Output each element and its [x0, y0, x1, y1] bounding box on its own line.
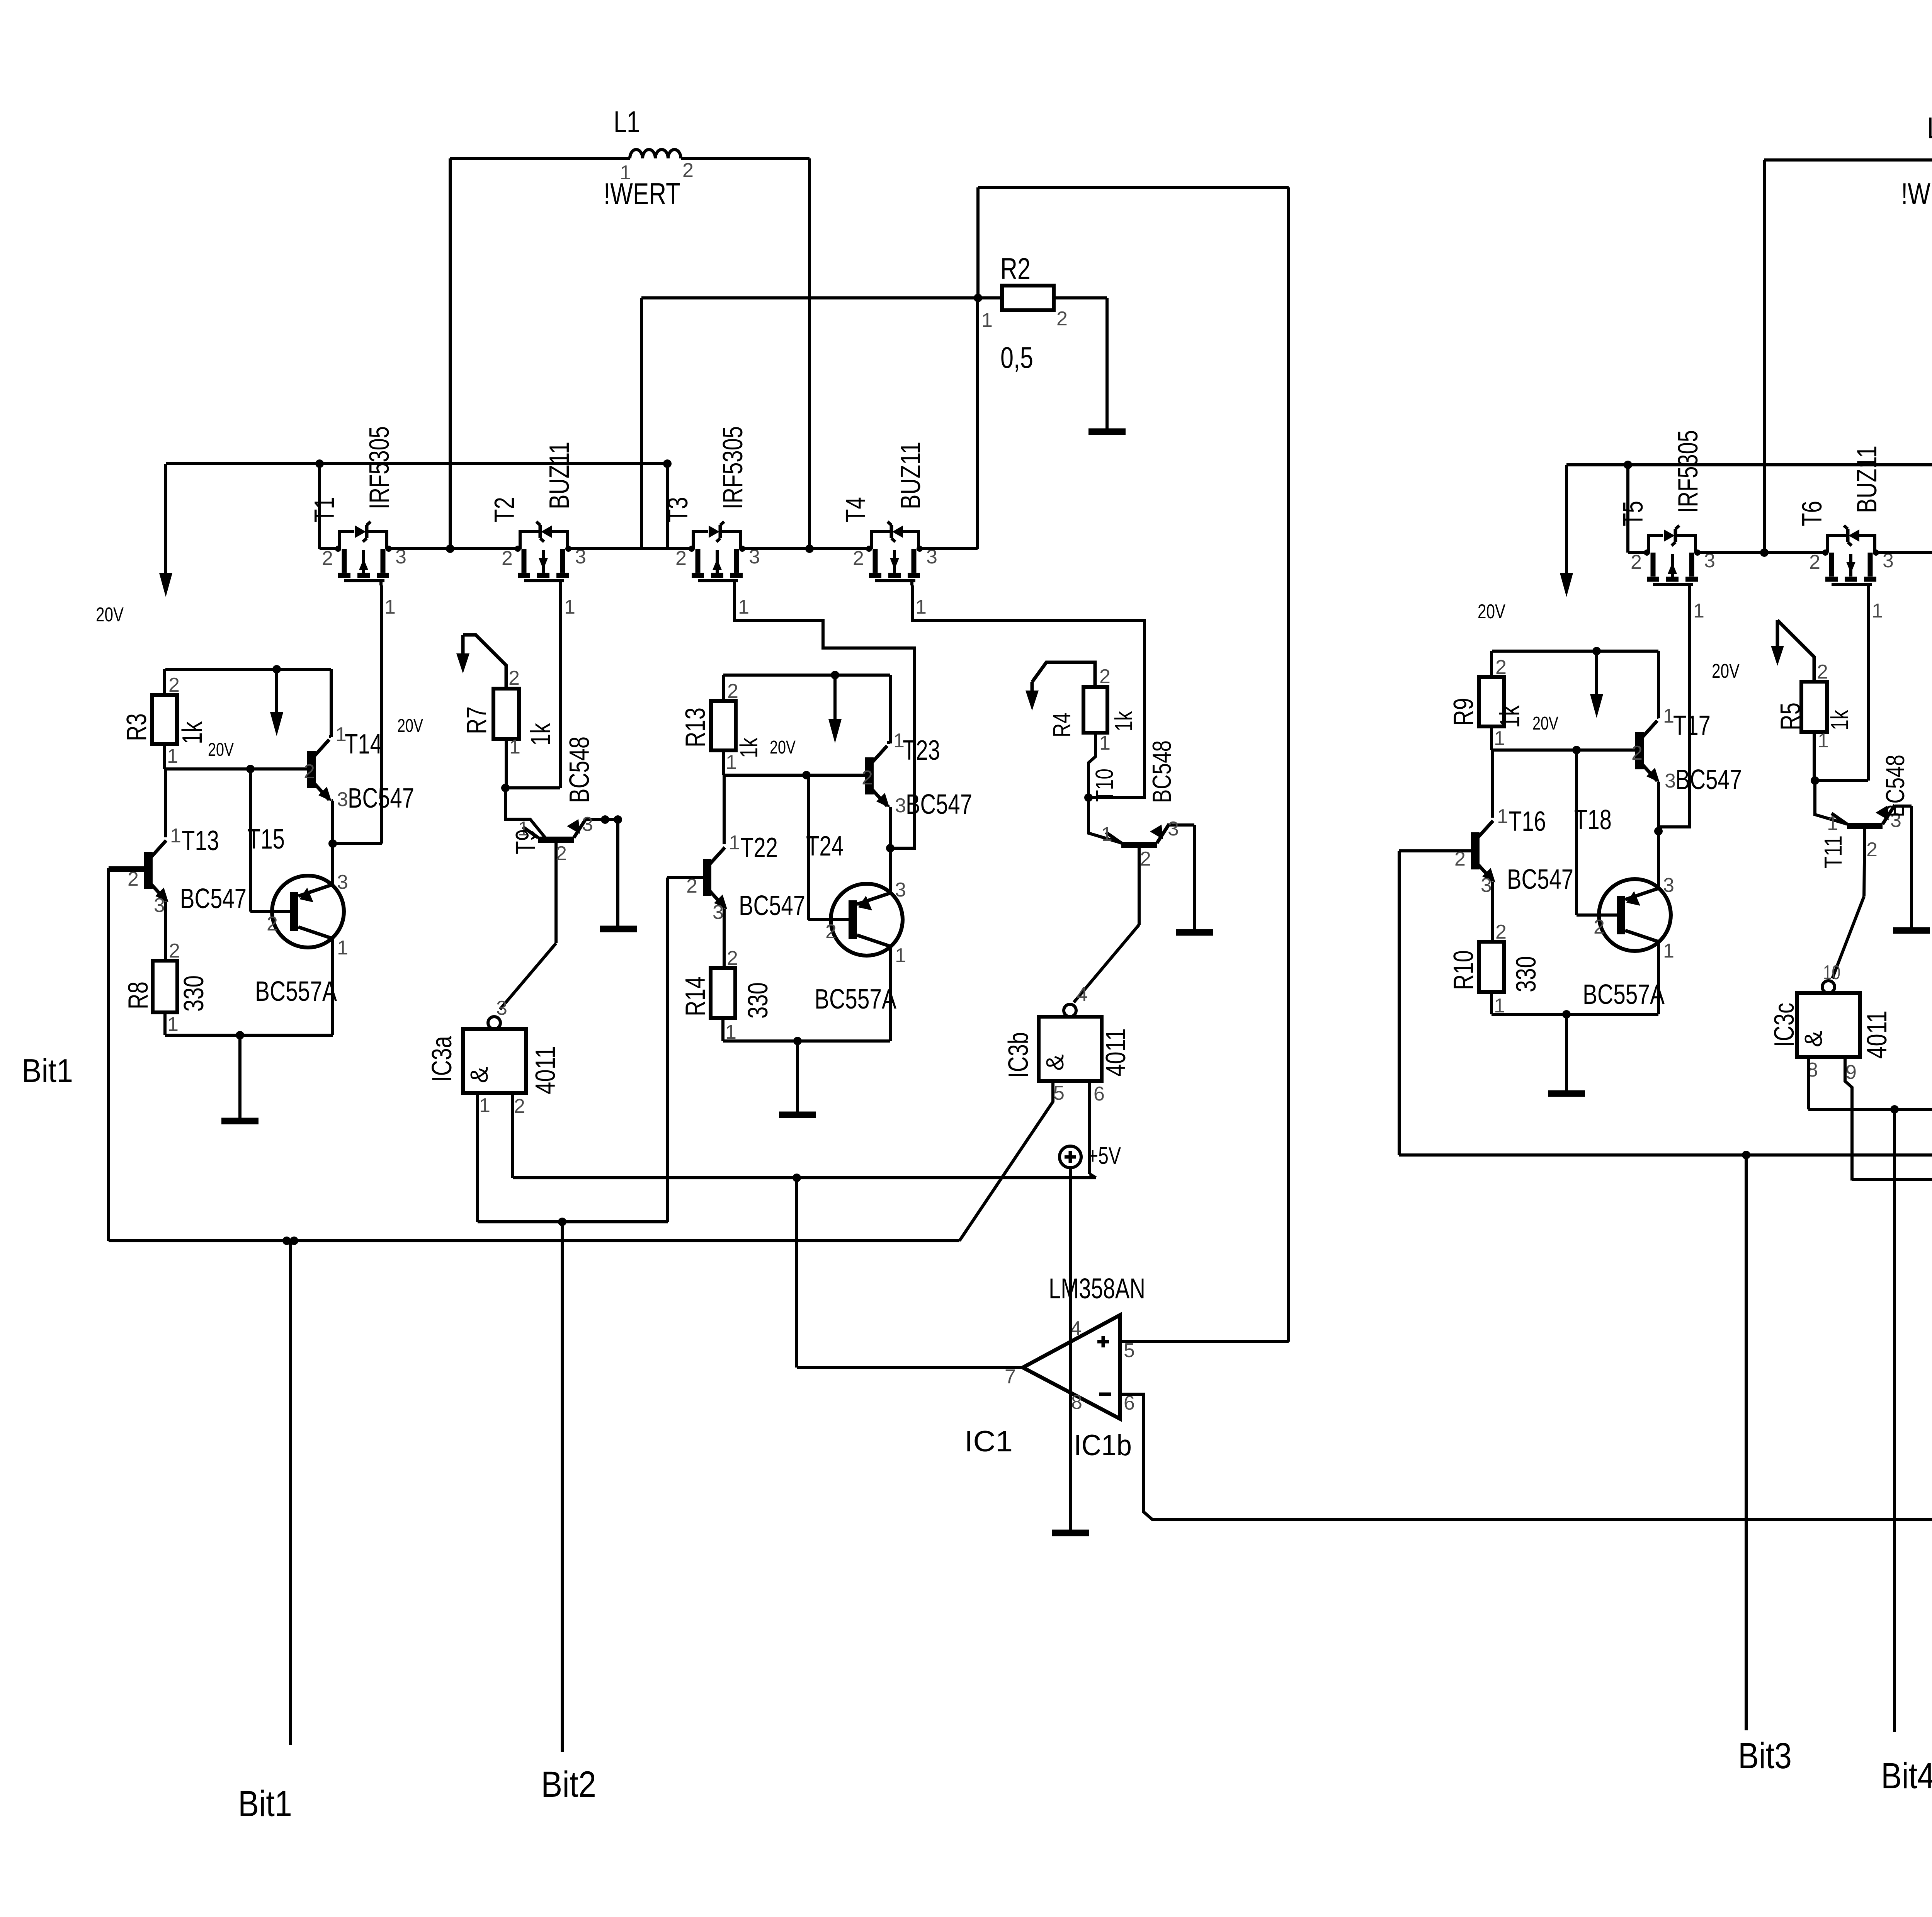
svg-text:330: 330: [743, 982, 774, 1019]
svg-text:2: 2: [1631, 742, 1643, 764]
svg-text:3: 3: [1665, 770, 1676, 792]
junction R5 / T6 gate / T11 base: [1811, 776, 1868, 785]
wire T4 source to R2 node: [920, 298, 978, 549]
wire base node cell A: [165, 765, 309, 773]
wire T5 drain to T6 drain: [1698, 551, 1825, 554]
ground cell A': [1548, 1014, 1585, 1094]
svg-text:2: 2: [1454, 848, 1466, 870]
svg-text:BC548: BC548: [1881, 755, 1910, 817]
svg-text:3: 3: [337, 788, 348, 811]
transistor T6 BUZ11: [1797, 446, 1894, 622]
svg-text:1: 1: [170, 825, 181, 847]
svg-text:R3: R3: [121, 713, 152, 741]
svg-text:1: 1: [167, 1013, 179, 1036]
svg-text:1: 1: [620, 162, 631, 184]
svg-text:20V: 20V: [1712, 660, 1740, 682]
svg-text:Bit4: Bit4: [1881, 1755, 1932, 1796]
wire net Bit3 bus: [1399, 1153, 1932, 1157]
svg-text:1: 1: [895, 944, 906, 967]
wire net Bit2: [541, 1222, 596, 1805]
svg-text:IC3b: IC3b: [1003, 1032, 1034, 1078]
transistor T9 BC548: [505, 737, 605, 943]
svg-text:3: 3: [713, 901, 724, 924]
wire 20V rail right: [1566, 461, 1932, 557]
svg-text:T23: T23: [903, 735, 940, 766]
power +5V IC1: [1060, 1143, 1121, 1315]
inductor L2: [1901, 111, 1932, 211]
svg-text:BC547: BC547: [739, 890, 805, 921]
arrow pointer R5: [1771, 620, 1814, 682]
junction R4 / T4 gate / T10 base: [1084, 793, 1093, 802]
svg-text:1: 1: [1099, 732, 1111, 754]
resistor R10 330: [1448, 921, 1542, 1017]
transistor T24 BC557A: [808, 775, 906, 1041]
svg-text:T6: T6: [1797, 501, 1828, 526]
wire 20V rail left: [166, 459, 692, 549]
svg-text:3: 3: [895, 794, 906, 817]
svg-text:1: 1: [1872, 600, 1883, 622]
svg-text:5: 5: [1053, 1082, 1065, 1104]
ground T10: [1176, 929, 1213, 936]
wire T22 base to IC3a pin1 net: [666, 878, 669, 1222]
svg-text:1: 1: [1497, 805, 1508, 828]
resistor R14 330: [680, 947, 774, 1043]
svg-text:2: 2: [853, 547, 864, 570]
transistor T16 BC547: [1399, 750, 1612, 942]
svg-text:BC547: BC547: [180, 883, 247, 914]
resistor R2 0,5: [981, 252, 1068, 374]
resistor R9 1k: [1448, 651, 1526, 750]
gate IC3c 4011: [1769, 961, 1893, 1084]
inductor L1: [604, 105, 694, 211]
transistor T2 BUZ11: [489, 442, 586, 618]
wire cell A top rail: [165, 665, 331, 674]
svg-text:BUZ11: BUZ11: [1852, 446, 1883, 513]
wire net Bit3 drop: [1738, 1151, 1792, 1776]
wire T3 drain to T4 drain: [743, 547, 869, 550]
svg-text:R2: R2: [1000, 252, 1031, 286]
svg-text:4011: 4011: [1100, 1028, 1131, 1077]
svg-text:T10: T10: [1090, 769, 1118, 802]
svg-text:1: 1: [564, 596, 575, 618]
svg-text:T2: T2: [489, 497, 520, 522]
svg-text:T14: T14: [345, 729, 382, 760]
svg-text:T3: T3: [663, 497, 694, 522]
wire T6 gate to R5 node: [1867, 589, 1870, 781]
svg-text:BC547: BC547: [1675, 764, 1742, 795]
svg-text:1: 1: [1663, 705, 1674, 727]
svg-text:Bit1: Bit1: [238, 1783, 292, 1824]
wire IC1 power down: [1069, 1315, 1072, 1531]
svg-text:2: 2: [1140, 848, 1151, 870]
svg-text:IRF5305: IRF5305: [1673, 430, 1704, 513]
svg-text:20V: 20V: [96, 604, 124, 626]
svg-text:1: 1: [167, 745, 178, 767]
svg-text:2: 2: [168, 674, 180, 696]
wire comparator IC2b output net: [1852, 1175, 1932, 1184]
transistor T15 BC557A: [250, 769, 348, 1035]
svg-text:BC548: BC548: [1147, 740, 1177, 803]
svg-text:Bit2: Bit2: [541, 1764, 596, 1805]
arrow 20V cell A: [208, 669, 283, 760]
transistor T18 BC557A: [1577, 750, 1674, 1014]
junction T14 emitter / T1 gate / T15 collector: [328, 839, 337, 848]
svg-text:2: 2: [686, 875, 697, 897]
svg-text:&: &: [1799, 1031, 1827, 1047]
svg-text:R14: R14: [680, 976, 711, 1016]
resistor R3 1k: [121, 669, 208, 769]
arrow 20V cell A': [1532, 651, 1603, 734]
svg-text:3: 3: [337, 871, 348, 893]
wire IC3c pin8 to T19 base net: [1808, 1055, 1932, 1114]
ground cell A: [221, 1035, 259, 1121]
wire T5 gate to T17 emitter node: [1660, 589, 1740, 831]
wire T1 source: [320, 547, 338, 550]
transistor T10 BC548: [1088, 740, 1194, 925]
ground T11: [1893, 927, 1930, 934]
svg-text:BC547: BC547: [1507, 864, 1573, 895]
transistor T11 BC548: [1815, 755, 1912, 896]
svg-text:1: 1: [1101, 823, 1112, 845]
svg-text:4011: 4011: [530, 1046, 561, 1094]
wire cell C bottom: [723, 1037, 890, 1045]
svg-text:6: 6: [1094, 1083, 1105, 1105]
svg-text:2: 2: [1631, 551, 1642, 573]
wire L1 pin1 to T1/T2 drain node: [446, 158, 630, 553]
svg-text:2: 2: [1866, 839, 1878, 861]
wire T10 emitter to ground: [1193, 825, 1196, 930]
svg-text:2: 2: [1495, 656, 1507, 679]
svg-text:2: 2: [682, 159, 694, 182]
svg-text:3: 3: [1481, 874, 1492, 896]
svg-text:R10: R10: [1448, 950, 1479, 990]
svg-text:1k: 1k: [1495, 705, 1526, 728]
svg-text:IRF5305: IRF5305: [364, 426, 395, 509]
svg-text:1k: 1k: [177, 721, 208, 744]
svg-text:R5: R5: [1775, 703, 1806, 730]
svg-text:20V: 20V: [208, 740, 234, 760]
svg-text:2: 2: [862, 767, 873, 789]
svg-text:BUZ11: BUZ11: [544, 442, 575, 509]
transistor T13 BC547: [109, 769, 285, 959]
svg-text:2: 2: [675, 547, 687, 570]
svg-text:1: 1: [738, 596, 749, 618]
wire T10 base to IC3b output: [1074, 925, 1139, 1002]
wire T1 drain to T2 drain: [389, 547, 518, 550]
svg-text:L1: L1: [614, 105, 640, 139]
svg-text:2: 2: [509, 667, 520, 689]
svg-text:3: 3: [1663, 874, 1674, 896]
svg-text:!WERT: !WERT: [1901, 177, 1932, 211]
wire IC3b pin6 to comparator output net: [1090, 1079, 1096, 1178]
svg-text:IRF5305: IRF5305: [718, 426, 748, 509]
svg-text:1k: 1k: [735, 737, 763, 758]
wire IC3b pin5 to Bit1 bus: [959, 1079, 1053, 1241]
wire L1 pin2 to T3/T4 drain node: [681, 158, 814, 553]
svg-text:1: 1: [1494, 727, 1505, 750]
wire T1 gate to T14 emitter node: [333, 585, 423, 844]
svg-text:2: 2: [556, 842, 567, 865]
svg-text:1: 1: [729, 832, 740, 854]
ground IC1: [1052, 1530, 1089, 1536]
svg-text:BC547: BC547: [906, 789, 972, 820]
svg-text:T4: T4: [840, 497, 871, 522]
svg-text:2: 2: [1099, 665, 1111, 688]
svg-text:T22: T22: [740, 832, 778, 863]
svg-text:2: 2: [825, 920, 837, 943]
ground cell C: [779, 1041, 816, 1115]
transistor T5 IRF5305: [1618, 430, 1715, 622]
junction T17 emitter / T5 gate / T18 collector: [1654, 827, 1663, 835]
svg-text:+5V: +5V: [1087, 1143, 1121, 1169]
svg-text:2: 2: [514, 1095, 525, 1118]
svg-text:!WERT: !WERT: [604, 177, 680, 211]
wire T2/T3 node to R2: [641, 294, 1002, 549]
resistor R8 330: [123, 940, 209, 1036]
svg-text:2: 2: [322, 547, 333, 570]
svg-text:4: 4: [1070, 1317, 1082, 1340]
wire IC1b output: [797, 1178, 1023, 1368]
svg-text:IC3c: IC3c: [1769, 1003, 1800, 1047]
svg-text:1k: 1k: [526, 723, 556, 746]
svg-text:9: 9: [1845, 1061, 1857, 1084]
svg-text:BC557A: BC557A: [815, 984, 896, 1015]
junction T23 emitter / T3 gate / T24 collector: [886, 844, 895, 852]
svg-text:3: 3: [154, 894, 165, 917]
transistor T14 BC547: [304, 669, 414, 844]
wire net Bit1 drop: [238, 1241, 292, 1824]
junction R7 / T2 gate / T9 base: [501, 784, 560, 792]
svg-text:2: 2: [1056, 308, 1068, 330]
gate IC3b 4011: [1003, 983, 1131, 1105]
svg-text:Bit3: Bit3: [1738, 1735, 1792, 1776]
wire net Bit1 bus: [109, 1237, 959, 1245]
svg-text:R9: R9: [1448, 698, 1479, 726]
svg-text:4: 4: [1077, 983, 1088, 1005]
wire T9 base to IC3a output: [500, 943, 556, 1009]
wire IC1b -input to R15 wiper net: [1120, 1394, 1932, 1520]
svg-text:1: 1: [726, 751, 737, 774]
svg-text:3: 3: [582, 813, 593, 835]
svg-text:2: 2: [128, 868, 139, 890]
svg-text:2: 2: [727, 680, 738, 703]
wire IC3a pin2 to comparator output net: [513, 1094, 1096, 1182]
wire R2 pin2 to ground: [1054, 298, 1107, 429]
svg-text:2: 2: [1809, 551, 1820, 573]
resistor R4 1k: [1048, 665, 1138, 798]
transistor T23 BC547: [862, 675, 972, 848]
svg-text:T24: T24: [806, 831, 844, 862]
svg-text:1: 1: [337, 937, 348, 959]
transistor T1 IRF5305: [309, 426, 406, 618]
svg-text:20V: 20V: [397, 716, 423, 736]
resistor R13 1k: [680, 675, 763, 775]
svg-text:2: 2: [1817, 661, 1828, 683]
arrow pointer R7: [456, 635, 506, 689]
wire T4 gate to R4 node: [913, 585, 1145, 798]
svg-text:330: 330: [179, 975, 209, 1012]
wire base node cell A': [1492, 746, 1637, 754]
svg-text:T9: T9: [510, 829, 541, 854]
svg-text:T17: T17: [1673, 710, 1711, 741]
label net Bit1 left: [22, 1053, 73, 1089]
arrow 20V supply left: [96, 464, 172, 626]
svg-text:2: 2: [304, 760, 315, 783]
wire cell A' bottom: [1492, 1010, 1658, 1019]
svg-text:1: 1: [1818, 730, 1829, 752]
svg-text:IC3a: IC3a: [427, 1036, 457, 1082]
wire IC1b +input: [1120, 1340, 1289, 1343]
wire cell A bottom: [165, 1031, 333, 1039]
svg-text:3: 3: [496, 997, 507, 1019]
arrow 20V supply right: [1478, 465, 1573, 623]
svg-text:2: 2: [1594, 916, 1605, 938]
svg-text:1k: 1k: [1110, 711, 1138, 731]
svg-text:1: 1: [509, 736, 520, 758]
svg-text:3: 3: [895, 879, 906, 901]
svg-text:T18: T18: [1574, 805, 1612, 835]
svg-text:8: 8: [1071, 1391, 1082, 1414]
wire T11 emitter to ground: [1910, 806, 1913, 928]
svg-text:1: 1: [1693, 600, 1704, 622]
arrow 20V cell C: [770, 675, 842, 758]
wire T11 base to IC3c output: [1832, 896, 1864, 978]
svg-text:330: 330: [1511, 956, 1542, 992]
wire T2 gate to R7 node: [559, 585, 562, 788]
wire T9 emitter to ground: [601, 815, 622, 927]
ground R2: [1088, 429, 1126, 435]
svg-text:T5: T5: [1618, 501, 1649, 526]
wire base node cell C: [723, 771, 867, 779]
svg-text:1: 1: [981, 309, 993, 332]
wire T2 source to T3 source: [569, 547, 692, 550]
transistor T4 BUZ11: [840, 442, 937, 618]
svg-text:R13: R13: [680, 708, 711, 747]
wire T13 base / Bit1 feedback: [109, 868, 144, 1241]
wire T6 source to R1 node: [1876, 316, 1932, 553]
transistor T3 IRF5305: [663, 426, 760, 618]
svg-text:T16: T16: [1509, 806, 1546, 837]
svg-text:LM358AN: LM358AN: [1049, 1272, 1145, 1305]
gate IC3a 4011: [427, 997, 561, 1118]
svg-text:20V: 20V: [1478, 600, 1505, 623]
svg-text:R8: R8: [123, 981, 154, 1009]
svg-text:IC1b: IC1b: [1074, 1429, 1132, 1462]
svg-text:2: 2: [267, 913, 278, 935]
transistor T22 BC547: [667, 775, 844, 968]
svg-text:2: 2: [1495, 921, 1507, 943]
svg-text:IC1: IC1: [964, 1425, 1013, 1458]
wire cell A' top rail: [1492, 647, 1658, 655]
svg-text:R7: R7: [461, 706, 492, 734]
svg-text:&: &: [465, 1067, 493, 1083]
transistor T17 BC547: [1631, 651, 1742, 831]
svg-text:R4: R4: [1048, 713, 1076, 737]
svg-text:T11: T11: [1819, 835, 1847, 869]
wire T3 gate to T23 emitter node: [735, 585, 915, 848]
svg-text:20V: 20V: [1532, 713, 1558, 734]
resistor R7 1k: [461, 667, 556, 788]
wire IC3a pin1 to T22 base net: [478, 1094, 668, 1226]
svg-text:4011: 4011: [1862, 1010, 1893, 1059]
wire R2 node to op-amp + input: [978, 187, 1289, 1342]
svg-text:1: 1: [1663, 940, 1674, 962]
svg-text:T15: T15: [247, 824, 285, 855]
svg-text:&: &: [1041, 1054, 1069, 1071]
wire net Bit4: [1881, 1109, 1932, 1796]
svg-text:BC557A: BC557A: [1583, 979, 1665, 1010]
svg-text:1: 1: [479, 1094, 490, 1117]
svg-text:3: 3: [1168, 818, 1179, 840]
wire IC3c pin9 to comparator output net: [1845, 1055, 1852, 1180]
svg-text:1: 1: [384, 596, 396, 618]
svg-text:BC547: BC547: [348, 783, 414, 814]
wire L2 pin1 to T5/T6 drain node: [1760, 160, 1932, 557]
svg-text:2: 2: [727, 947, 738, 970]
wire cell C top rail: [723, 671, 890, 679]
op-amp IC1b LM358AN: [964, 1272, 1145, 1462]
svg-text:2: 2: [169, 940, 180, 962]
svg-text:20V: 20V: [770, 737, 796, 758]
svg-text:L2: L2: [1927, 111, 1932, 145]
svg-text:BUZ11: BUZ11: [895, 442, 926, 509]
wire T16 base to Bit3 bus: [1398, 851, 1401, 1155]
svg-text:1: 1: [1827, 812, 1838, 835]
svg-text:10: 10: [1823, 961, 1840, 984]
wire T5 source: [1628, 551, 1647, 554]
svg-text:0,5: 0,5: [1000, 340, 1033, 374]
svg-text:BC548: BC548: [564, 737, 595, 803]
svg-text:T13: T13: [182, 825, 219, 856]
svg-text:1k: 1k: [1826, 709, 1854, 730]
svg-text:T1: T1: [309, 497, 340, 522]
ground T9: [600, 926, 637, 932]
svg-text:BC557A: BC557A: [255, 976, 337, 1007]
arrow pointer R4: [1026, 662, 1095, 711]
svg-text:1: 1: [915, 596, 927, 618]
svg-text:Bit1: Bit1: [22, 1053, 73, 1089]
resistor R5 1k: [1775, 661, 1854, 781]
svg-text:2: 2: [502, 547, 513, 570]
